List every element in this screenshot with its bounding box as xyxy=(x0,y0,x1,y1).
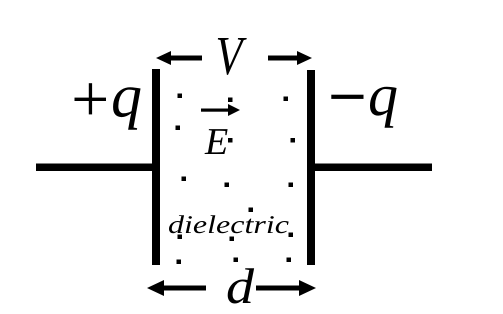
dot 15 xyxy=(234,258,239,263)
dot 10 xyxy=(249,208,254,213)
arrow V right xyxy=(268,51,312,65)
arrow d right xyxy=(256,280,316,296)
dot 4 xyxy=(176,126,181,131)
dot 11 xyxy=(178,235,183,240)
arrow E field xyxy=(201,104,240,116)
svg-text:q: q xyxy=(111,62,142,130)
arrow V left xyxy=(156,51,202,65)
dot 8 xyxy=(225,183,230,188)
arrow d left xyxy=(147,280,206,296)
dot 12 xyxy=(230,237,235,242)
dot 7 xyxy=(182,177,187,182)
svg-text:dielectric: dielectric xyxy=(168,210,290,239)
svg-text:E: E xyxy=(204,121,228,163)
capacitor plate right (-) xyxy=(307,70,315,265)
dot 2 xyxy=(228,98,233,103)
svg-text:d: d xyxy=(226,258,255,314)
label -q : minus sign xyxy=(331,95,363,99)
dot 5 xyxy=(228,138,233,143)
wire right lead xyxy=(314,164,432,172)
dot 16 xyxy=(287,258,292,263)
svg-text:V: V xyxy=(216,25,247,86)
dot 1 xyxy=(178,94,183,99)
dot 9 xyxy=(289,183,294,188)
svg-text:q: q xyxy=(368,62,398,128)
dot 3 xyxy=(284,97,289,102)
dot 6 xyxy=(291,138,296,143)
wire left lead xyxy=(36,164,157,172)
dielectric dots xyxy=(176,94,296,265)
dot 13 xyxy=(289,233,294,238)
label +q : plus sign xyxy=(75,83,107,114)
capacitor plate left (+) xyxy=(152,69,160,265)
dot 14 xyxy=(177,260,182,265)
